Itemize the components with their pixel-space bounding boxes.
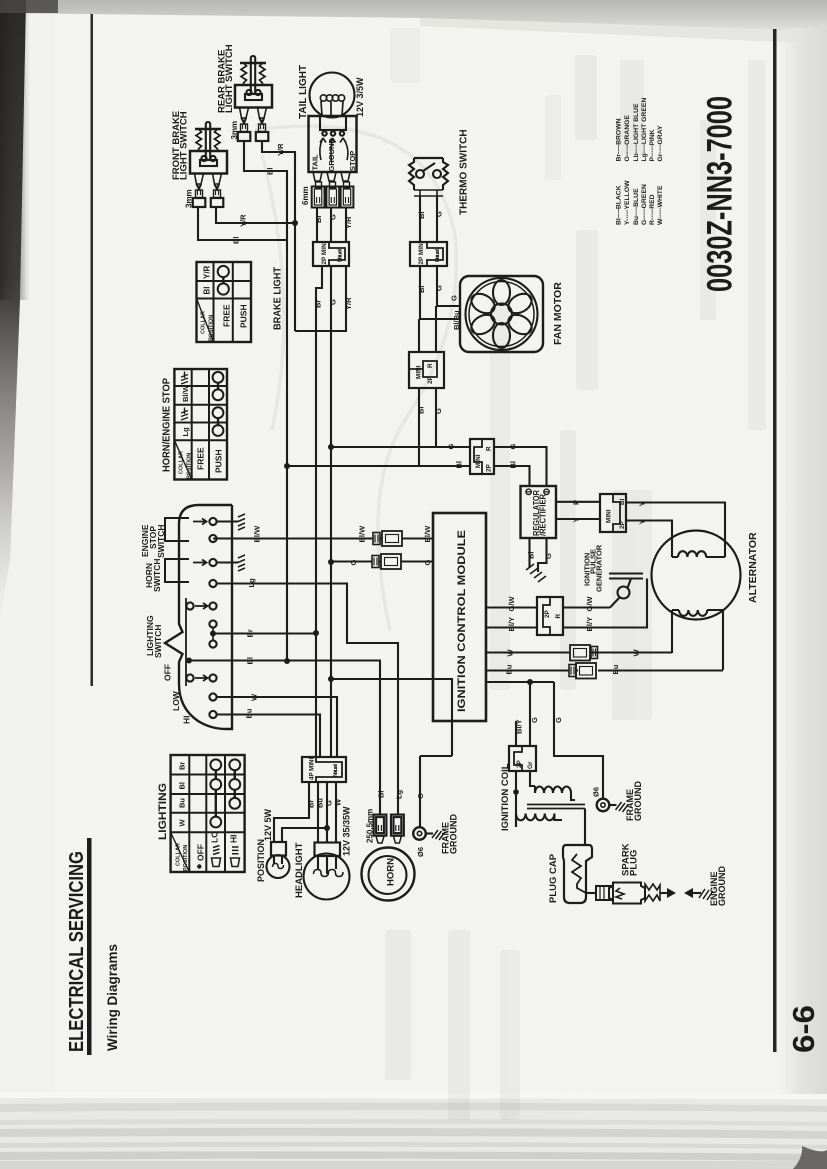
svg-text:Bl: Bl — [417, 286, 426, 294]
svg-text:HEADLIGHT: HEADLIGHT — [294, 842, 305, 898]
svg-text:6mm: 6mm — [301, 186, 310, 205]
svg-text:COLLAR: COLLAR — [201, 311, 207, 334]
svg-text:OFF: OFF — [196, 844, 206, 861]
svg-text:Br----BROWN: Br----BROWN — [615, 118, 622, 161]
svg-text:PUSH: PUSH — [239, 304, 249, 328]
svg-text:FREE: FREE — [196, 447, 206, 470]
svg-text:4P MINI: 4P MINI — [309, 757, 316, 780]
svg-text:Br: Br — [178, 762, 187, 770]
svg-text:G: G — [416, 793, 425, 799]
svg-text:G: G — [349, 560, 358, 566]
svg-text:HI: HI — [229, 835, 239, 844]
svg-text:Br: Br — [246, 629, 255, 637]
svg-text:FAN MOTOR: FAN MOTOR — [552, 282, 564, 345]
svg-text:G: G — [435, 285, 444, 291]
svg-text:Bl: Bl — [527, 552, 536, 560]
svg-text:Bu: Bu — [505, 664, 514, 674]
svg-text:Bl/Bu: Bl/Bu — [452, 310, 461, 330]
svg-text:HORN: HORN — [386, 858, 397, 886]
svg-text:O-----ORANGE: O-----ORANGE — [624, 115, 631, 162]
svg-text:OFF: OFF — [163, 664, 173, 681]
svg-text:LIGHTING: LIGHTING — [157, 783, 169, 840]
svg-text:2P: 2P — [619, 520, 626, 529]
svg-text:2P: 2P — [427, 375, 434, 384]
svg-text:Y: Y — [638, 501, 647, 506]
svg-text:Bl/W: Bl/W — [253, 525, 262, 543]
svg-text:Bl/Y: Bl/Y — [515, 719, 524, 734]
svg-text:PUSH: PUSH — [214, 449, 224, 473]
svg-text:W: W — [632, 649, 641, 657]
svg-text:IGNITION COIL: IGNITION COIL — [500, 763, 511, 831]
svg-text:Br: Br — [307, 800, 316, 808]
svg-text:POSITION: POSITION — [183, 845, 189, 871]
svg-text:12V 3/5W: 12V 3/5W — [355, 77, 365, 117]
svg-text:Y/R: Y/R — [344, 216, 353, 229]
svg-text:ELECTRICAL SERVICING: ELECTRICAL SERVICING — [65, 851, 88, 1052]
svg-text:SWITCH: SWITCH — [156, 524, 166, 558]
svg-text:POSITION: POSITION — [209, 315, 215, 341]
svg-text:GENERATOR: GENERATOR — [595, 544, 604, 592]
svg-text:2P MINI: 2P MINI — [321, 241, 328, 264]
svg-text:G: G — [544, 553, 553, 559]
svg-text:Bl: Bl — [417, 407, 426, 415]
svg-text:W: W — [334, 798, 343, 806]
svg-text:250.5mm: 250.5mm — [366, 809, 375, 843]
svg-text:3mm: 3mm — [230, 121, 239, 140]
svg-text:GROUND: GROUND — [633, 781, 643, 821]
svg-text:THERMO SWITCH: THERMO SWITCH — [459, 129, 470, 215]
svg-text:HI: HI — [182, 716, 192, 725]
svg-text:Br: Br — [314, 215, 323, 223]
svg-text:G/W: G/W — [507, 596, 516, 612]
svg-text:W-----WHITE: W-----WHITE — [657, 185, 664, 225]
svg-text:Bl: Bl — [246, 657, 255, 665]
svg-text:Br: Br — [314, 300, 323, 308]
svg-text:LIGHT SWITCH: LIGHT SWITCH — [224, 44, 235, 113]
svg-text:Lb----LIGHT BLUE: Lb----LIGHT BLUE — [633, 103, 640, 162]
svg-text:R-----RED: R-----RED — [649, 194, 656, 225]
svg-text:MINI: MINI — [475, 454, 482, 468]
svg-text:Bu: Bu — [316, 798, 325, 808]
svg-text:LO: LO — [210, 831, 220, 843]
svg-text:Lg----LIGHT GREEN: Lg----LIGHT GREEN — [641, 98, 648, 162]
svg-text:BRAKE LIGHT: BRAKE LIGHT — [272, 266, 284, 330]
svg-text:Bl: Bl — [417, 212, 426, 220]
svg-text:Bl/Y: Bl/Y — [507, 617, 516, 632]
svg-text:P-----PINK: P-----PINK — [649, 129, 656, 161]
svg-text:Y/R: Y/R — [203, 265, 212, 279]
svg-text:/RECTIFIER: /RECTIFIER — [539, 494, 548, 536]
svg-text:Bl: Bl — [619, 498, 626, 505]
svg-text:HORN/ENGINE STOP: HORN/ENGINE STOP — [161, 378, 173, 472]
svg-text:Bl/W: Bl/W — [358, 525, 367, 543]
svg-text:Lg: Lg — [247, 578, 256, 588]
svg-text:GROUND: GROUND — [717, 866, 727, 906]
svg-text:2P: 2P — [486, 463, 493, 472]
svg-text:W: W — [506, 649, 515, 657]
svg-text:G: G — [329, 299, 338, 305]
svg-text:PLUG CAP: PLUG CAP — [548, 853, 559, 903]
svg-text:2P: 2P — [516, 759, 523, 768]
svg-text:G: G — [329, 214, 338, 220]
svg-text:Bu: Bu — [178, 798, 187, 808]
svg-text:GROUND: GROUND — [327, 138, 336, 172]
svg-text:G/W: G/W — [585, 596, 594, 612]
svg-text:G-----GREEN: G-----GREEN — [641, 184, 648, 225]
svg-text:Bu: Bu — [245, 708, 254, 718]
svg-text:Bl/Y: Bl/Y — [585, 617, 594, 632]
svg-text:STOP: STOP — [348, 151, 357, 171]
svg-text:Natural: Natural — [435, 249, 441, 262]
svg-text:G: G — [447, 444, 456, 450]
svg-text:G: G — [509, 444, 518, 450]
svg-text:Y/R: Y/R — [344, 297, 353, 310]
svg-text:Bl: Bl — [266, 168, 275, 176]
svg-text:Bl: Bl — [377, 791, 386, 799]
svg-text:G: G — [530, 717, 539, 723]
svg-text:TAIL: TAIL — [311, 154, 320, 171]
svg-text:Natural: Natural — [333, 764, 339, 777]
svg-text:MINI: MINI — [416, 365, 423, 379]
svg-text:Ø6: Ø6 — [592, 787, 601, 797]
svg-text:Lg: Lg — [181, 427, 190, 437]
svg-text:Y-----YELLOW: Y-----YELLOW — [624, 180, 631, 225]
svg-text:POSITION: POSITION — [256, 839, 266, 882]
svg-text:MINI: MINI — [606, 509, 613, 523]
svg-text:Bl: Bl — [509, 461, 518, 469]
svg-text:Gr----GRAY: Gr----GRAY — [657, 125, 664, 161]
svg-text:Bl: Bl — [232, 237, 241, 245]
svg-text:G: G — [450, 295, 459, 301]
svg-text:IGNITION CONTROL MODULE: IGNITION CONTROL MODULE — [456, 530, 468, 712]
svg-text:FREE: FREE — [222, 304, 232, 327]
svg-text:Bl/W: Bl/W — [181, 384, 190, 402]
svg-text:Y: Y — [572, 517, 581, 522]
svg-text:COLLAR: COLLAR — [176, 843, 182, 866]
svg-text:3mm: 3mm — [185, 189, 194, 208]
svg-text:COLLAR: COLLAR — [179, 451, 185, 474]
svg-text:Bl: Bl — [455, 461, 464, 469]
svg-text:Bl: Bl — [203, 287, 212, 295]
svg-text:R: R — [486, 446, 493, 451]
svg-text:SWITCH: SWITCH — [153, 624, 163, 658]
svg-text:R: R — [555, 614, 562, 619]
svg-text:PLUG: PLUG — [629, 850, 640, 876]
svg-text:Bl----BLACK: Bl----BLACK — [615, 185, 622, 225]
svg-text:SWITCH: SWITCH — [152, 558, 162, 592]
svg-text:Lg: Lg — [395, 789, 404, 799]
svg-text:R: R — [427, 363, 434, 368]
svg-text:Natural: Natural — [338, 249, 344, 262]
svg-text:Y/R: Y/R — [276, 143, 285, 156]
svg-text:2P MINI: 2P MINI — [418, 241, 425, 264]
svg-text:G: G — [423, 560, 432, 566]
svg-text:Bu----BLUE: Bu----BLUE — [633, 188, 640, 225]
svg-text:G: G — [434, 408, 443, 414]
svg-text:Wiring Diagrams: Wiring Diagrams — [105, 944, 120, 1051]
svg-text:G: G — [435, 211, 444, 217]
svg-text:G: G — [554, 717, 563, 723]
svg-text:Bl: Bl — [178, 782, 187, 790]
svg-text:12V 5W: 12V 5W — [263, 808, 273, 841]
svg-text:12V 35/35W: 12V 35/35W — [342, 806, 352, 856]
svg-text:POSITION: POSITION — [187, 453, 193, 479]
svg-text:Gr: Gr — [527, 761, 534, 769]
svg-text:ALTERNATOR: ALTERNATOR — [747, 532, 759, 603]
svg-text:P: P — [572, 500, 581, 505]
svg-text:0030Z-NN3-7000: 0030Z-NN3-7000 — [701, 96, 740, 292]
svg-text:W: W — [178, 819, 187, 827]
svg-text:Y: Y — [638, 519, 647, 524]
svg-text:Bl/W: Bl/W — [423, 525, 432, 543]
svg-text:W: W — [250, 693, 259, 701]
svg-text:6-6: 6-6 — [786, 1005, 821, 1053]
svg-text:2P: 2P — [544, 609, 551, 618]
svg-text:Bu: Bu — [611, 664, 620, 674]
svg-text:Y/R: Y/R — [239, 214, 248, 227]
svg-text:Ø6: Ø6 — [416, 847, 425, 857]
svg-text:LIGHT SWITCH: LIGHT SWITCH — [179, 111, 190, 180]
svg-text:G: G — [325, 800, 334, 806]
svg-text:TAIL LIGHT: TAIL LIGHT — [298, 65, 309, 119]
svg-text:GROUND: GROUND — [449, 814, 459, 854]
svg-text:LOW: LOW — [171, 690, 181, 711]
